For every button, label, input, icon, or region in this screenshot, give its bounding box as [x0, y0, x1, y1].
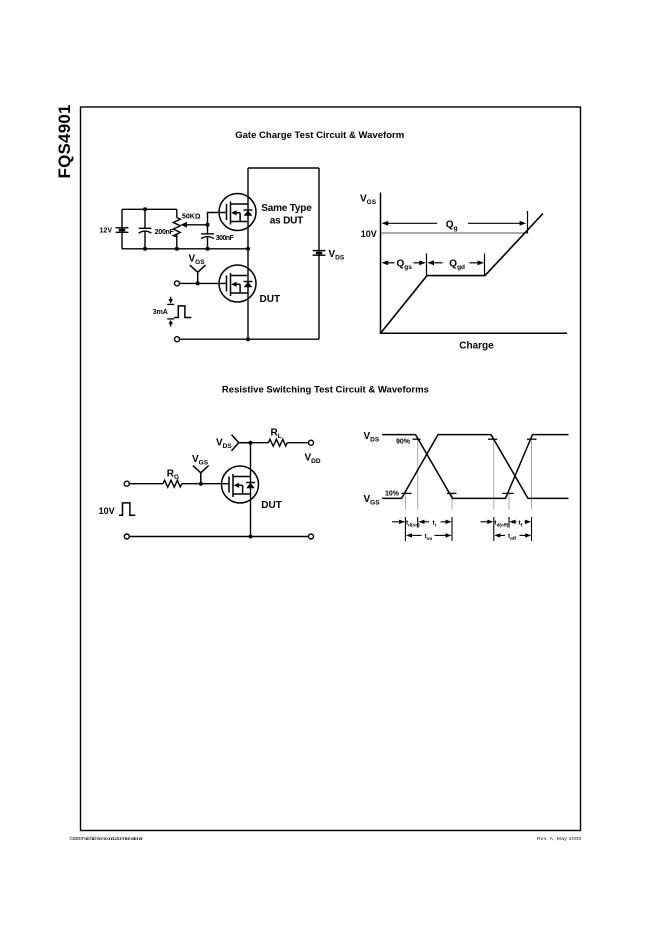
node junction wiper [206, 223, 210, 227]
node junction bias rail to main rail [246, 247, 250, 251]
extension line td(on) end [417, 439, 419, 527]
svg-text:200nF: 200nF [155, 229, 175, 236]
waveform trace VGS [382, 435, 569, 499]
svg-text:as DUT: as DUT [270, 215, 304, 226]
terminal source return right [309, 534, 314, 539]
svg-text:RL: RL [271, 427, 282, 440]
svg-text:Qgd: Qgd [449, 259, 465, 272]
svg-text:VDS: VDS [329, 249, 345, 262]
wire top rail of bias network [122, 208, 177, 210]
svg-text:300nF: 300nF [216, 235, 235, 242]
current pulse waveform 3mA [174, 306, 191, 318]
svg-text:RG: RG [167, 469, 179, 482]
terminal VDD [309, 440, 314, 445]
node junction 200nF bottom [143, 247, 147, 251]
dimension arrow tf [509, 520, 531, 524]
extension line td(off) start [493, 439, 495, 541]
svg-text:VGS: VGS [360, 194, 377, 207]
dimension arrow ton [406, 533, 452, 537]
extension line td(on) start [404, 493, 406, 541]
svg-text:Qg: Qg [446, 219, 458, 232]
probe VGS of gate charge circuit [190, 265, 206, 283]
tick 90pct VDS fall [413, 438, 421, 440]
svg-text:Same Type: Same Type [261, 203, 312, 214]
node junction pot bottom [175, 247, 179, 251]
wire gate input [180, 282, 227, 284]
drive pulse waveform [119, 503, 135, 515]
wire bottom return switching [129, 536, 308, 538]
wire bottom return [180, 338, 320, 340]
svg-text:Resistive Switching Test Circu: Resistive Switching Test Circuit & Wavef… [222, 385, 429, 396]
node junction source to rail [246, 337, 250, 341]
dimension arrow tr [418, 520, 451, 524]
node junction VGS probe switching [199, 482, 203, 486]
extension line tf end [531, 439, 533, 541]
extension line td(off) end [508, 493, 510, 527]
dimension leader td(off) [481, 520, 494, 524]
resistor RL [268, 439, 287, 446]
node junction source to return [249, 535, 253, 539]
MOSFET Q1 same type as DUT [219, 194, 256, 231]
svg-text:Rev. A, May 2000: Rev. A, May 2000 [537, 836, 581, 842]
wire drain to RL [251, 442, 269, 444]
tick Qg end [527, 211, 529, 234]
wire left battery branch [121, 209, 123, 249]
svg-text:50KΩ: 50KΩ [182, 214, 201, 221]
dimension arrow Qgd [427, 260, 484, 265]
10V level line [381, 232, 527, 234]
page frame border [81, 107, 581, 831]
svg-text:tf: tf [519, 520, 523, 528]
node junction VGS probe [196, 281, 200, 285]
svg-text:DUT: DUT [260, 294, 281, 305]
svg-text:Gate Charge Test Circuit & Wav: Gate Charge Test Circuit & Waveform [235, 130, 404, 141]
dimension arrow Qg [382, 221, 527, 226]
terminal source return left [124, 534, 129, 539]
tick 10pct VGS rise [402, 492, 412, 494]
capacitor 200nF [139, 209, 152, 249]
terminal gate input [175, 281, 180, 286]
tick 10pct VDS fall [447, 492, 457, 494]
axis X charge [380, 332, 567, 334]
svg-text:VGS: VGS [189, 254, 206, 267]
MOSFET Q2 DUT [219, 265, 256, 302]
axis Y VGS [380, 193, 382, 335]
node junction 200nF top [143, 207, 147, 211]
current source arrow bottom [167, 319, 174, 327]
node junction drain node [249, 441, 253, 445]
capacitor 300nF [201, 225, 214, 249]
resistor RG [163, 480, 182, 487]
svg-text:Charge: Charge [459, 341, 494, 352]
svg-text:10V: 10V [99, 506, 115, 516]
tick Qgs end [426, 254, 428, 276]
dimension arrow Qgs [382, 260, 426, 265]
svg-text:tr: tr [433, 520, 437, 528]
svg-text:ton: ton [425, 533, 433, 541]
wire input to RG [129, 483, 163, 485]
svg-text:Qgs: Qgs [397, 259, 413, 272]
wire RG to gate [182, 483, 230, 485]
tick 90pct VGS fall [488, 438, 497, 440]
wire right loop [318, 168, 320, 339]
svg-text:VDS: VDS [364, 431, 380, 444]
svg-text:10V: 10V [361, 229, 377, 239]
wire bottom rail of bias network [122, 248, 248, 250]
svg-text:90%: 90% [396, 438, 411, 445]
probe VGS of switching circuit [193, 466, 209, 484]
wire RL to VDD terminal [287, 442, 308, 444]
wire drain rail switching [250, 443, 252, 537]
battery 12V [116, 228, 129, 233]
tick Qgd end [484, 254, 486, 276]
wire top loop [248, 167, 319, 169]
svg-text:td(off): td(off) [494, 520, 508, 528]
terminal source return [175, 337, 180, 342]
battery VDS supply [313, 251, 326, 256]
svg-text:©2000 Fairchild Semiconductor: ©2000 Fairchild Semiconductor Internatio… [70, 835, 143, 842]
tick 10pct VDS rise [503, 492, 514, 494]
node junction 300nF bottom [206, 247, 210, 251]
svg-text:DUT: DUT [261, 500, 282, 511]
waveform trace VDS [382, 435, 569, 499]
terminal gate drive input [124, 481, 129, 486]
potentiometer 50K body [173, 209, 180, 249]
MOSFET Q3 DUT switching [222, 466, 259, 503]
gate charge curve [381, 214, 544, 334]
svg-text:VDS: VDS [216, 437, 232, 450]
svg-text:VGS: VGS [364, 494, 381, 507]
svg-text:VDD: VDD [305, 453, 321, 466]
svg-text:3mA: 3mA [153, 309, 168, 316]
svg-text:10%: 10% [385, 490, 400, 497]
probe VDS sideways [232, 435, 251, 451]
current source arrow top [167, 297, 174, 305]
label Same Type as DUT [261, 203, 312, 226]
wire wiper to gate node [208, 213, 227, 225]
tick 90pct VDS rise [527, 438, 537, 440]
wire main drain-source rail [247, 168, 249, 339]
svg-text:FQS4901: FQS4901 [55, 105, 74, 179]
potentiometer wiper arrow [181, 222, 208, 228]
svg-text:12V: 12V [100, 228, 113, 235]
extension line tr end [451, 493, 453, 541]
dimension arrow toff [494, 533, 531, 537]
svg-text:VGS: VGS [192, 454, 209, 467]
dimension leader td(on) [392, 520, 405, 524]
svg-text:toff: toff [508, 533, 517, 541]
